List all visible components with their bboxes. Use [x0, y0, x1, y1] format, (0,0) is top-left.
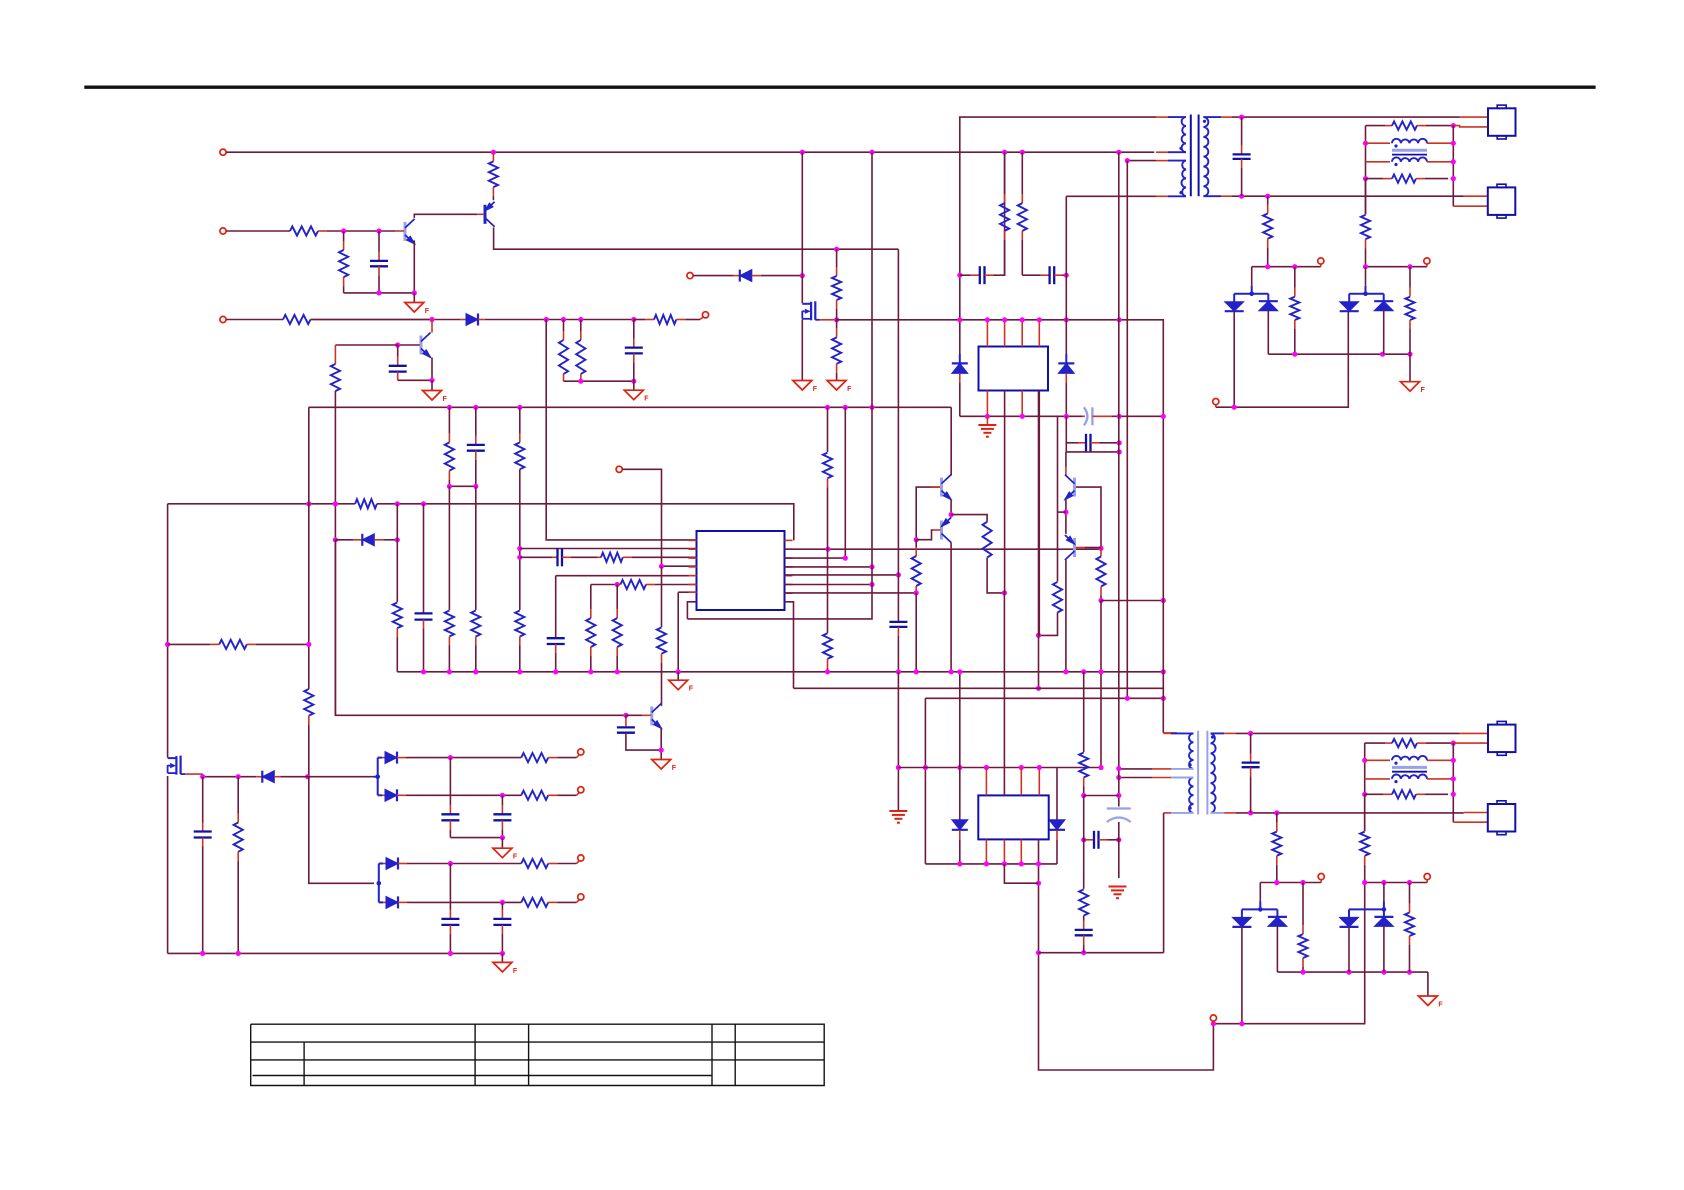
- wire cap join upper: [450, 837, 502, 839]
- wire R4 row: [785, 566, 873, 568]
- ic U1 right pin stub 7: [785, 592, 793, 594]
- junction dot M1 source: [834, 317, 839, 322]
- junction dot mosfet gate top: [834, 247, 839, 252]
- wire L3 right: [1448, 742, 1453, 744]
- junction dot D3b: [1063, 509, 1068, 514]
- junction dot upper top: [448, 755, 453, 760]
- mosfet M1: [802, 301, 820, 320]
- choke phase dot 1: [1394, 144, 1397, 147]
- wire scrD horizontal: [1365, 882, 1428, 884]
- wire scrA tee left down: [1233, 294, 1235, 302]
- u2 top stub 2: [1004, 320, 1006, 347]
- wire QB2 base stub: [1076, 547, 1085, 549]
- wire Z3 bottom: [959, 830, 961, 840]
- transformer T2 core line 2: [1206, 731, 1208, 815]
- wire R25 bottom: [987, 558, 1004, 593]
- resistor R15: [445, 611, 454, 672]
- capacitor C14: [1233, 117, 1251, 196]
- u2 bottom stub 2 long: [1004, 391, 1006, 593]
- diode D15: [383, 858, 409, 870]
- capacitor C5: [467, 407, 485, 486]
- choke2 phase dot 1: [1394, 762, 1397, 765]
- ic U2 optocoupler: [979, 347, 1049, 391]
- junction dot R4 row: [869, 564, 874, 569]
- u2 bottom stub 1: [986, 391, 988, 417]
- u3 top stub 1: [985, 768, 987, 796]
- wire scrB tee right down: [1383, 294, 1385, 302]
- resistor R22: [613, 585, 622, 672]
- wire x1004 mid: [1004, 245, 1006, 275]
- u3 top stub 2 long: [1003, 593, 1005, 796]
- capacitor C23: [493, 902, 511, 953]
- resistor R17: [515, 407, 524, 469]
- wire D8 down: [1241, 927, 1243, 1024]
- earth ground E3: [889, 811, 907, 823]
- wire upper pair hook top: [374, 776, 378, 778]
- junction dot R3 row: [843, 556, 848, 561]
- wire left rail top: [1365, 126, 1367, 215]
- terminal input 3: [220, 316, 226, 322]
- terminal RT: [702, 312, 708, 318]
- resistor R12: [331, 364, 340, 391]
- resistor R24: [823, 633, 832, 672]
- wire scrA tee: [1234, 293, 1268, 295]
- wire gnd bus Q1: [344, 292, 415, 294]
- resistor R27: [1096, 548, 1105, 600]
- resistor R8: [832, 249, 841, 320]
- resistor R37: [1079, 889, 1088, 915]
- junction dots row452: [1117, 449, 1122, 454]
- wire ic bottom left pin: [687, 602, 696, 619]
- wire x308 to lower pair: [309, 777, 374, 884]
- junction dots R2 row: [825, 547, 830, 552]
- capacitor C10: [960, 266, 1000, 284]
- wire x1004 to x1038: [1004, 864, 1038, 883]
- wire QC emitter: [660, 729, 662, 760]
- diode D14: [382, 789, 408, 801]
- wire lower pair top branch: [379, 863, 383, 865]
- wire scrB feed blue: [1365, 286, 1367, 294]
- capacitor C9: [617, 715, 635, 732]
- resistor R41: [1405, 883, 1414, 973]
- u2 top stub 1: [986, 320, 988, 347]
- wire col x519: [519, 469, 521, 610]
- wire t2 p bottom down: [1163, 813, 1165, 953]
- wire QC base stub a: [626, 714, 642, 716]
- zener Z1: [952, 363, 968, 373]
- wire QA2 base stub: [933, 529, 941, 531]
- junction dots rc bottom: [578, 379, 636, 384]
- wire col x1119 full: [1118, 152, 1120, 806]
- junction dot x1038 688: [1036, 686, 1041, 691]
- wire QA mid: [950, 500, 952, 518]
- wire QA2 base feed: [916, 530, 933, 540]
- wire row3 rc bottom: [564, 380, 634, 382]
- diode D7 (up): [1374, 301, 1393, 311]
- wire t1 sec top: [1232, 116, 1460, 118]
- ic U1 right pin stub 2: [785, 548, 793, 550]
- wire col x1163: [1162, 416, 1164, 733]
- wire R5 row: [785, 574, 899, 576]
- ground F11: [493, 962, 518, 975]
- junction dot L3 right: [1451, 741, 1456, 746]
- junction dots left rail2: [1362, 758, 1367, 797]
- wire QC base stub b: [642, 714, 651, 716]
- wire ic bottom right pin: [785, 602, 794, 689]
- ic U1 right pin stub 1: [785, 539, 793, 541]
- wire Q3 gnd stub: [431, 380, 433, 390]
- junction dots x1083: [1081, 793, 1086, 843]
- wire bottom rail left: [168, 952, 503, 954]
- ic U1 left pin stub 7: [689, 591, 697, 593]
- junction dots x1119 lower: [1116, 766, 1121, 843]
- transistor Q1: [405, 219, 416, 245]
- mosfet M2: [168, 756, 186, 775]
- ground F4: [793, 381, 818, 394]
- wire R3 row: [785, 407, 846, 558]
- wire T1 primary top wire: [959, 116, 1156, 118]
- svg-text:F: F: [425, 308, 430, 315]
- diode D13: [382, 752, 408, 764]
- wire right rail: [1452, 126, 1454, 207]
- transformer T1 core line 1: [1190, 115, 1192, 197]
- junction dots row3: [429, 317, 636, 322]
- t2 p bot lead: [1164, 812, 1171, 814]
- wire Q3 base row: [398, 344, 420, 346]
- wire L3 row a: [520, 556, 552, 558]
- wire N2 down: [915, 593, 917, 672]
- junction dots scrA horizontal: [1265, 264, 1297, 269]
- wire choke cm bot right lead: [1427, 161, 1453, 163]
- ground F2: [423, 391, 448, 404]
- svg-text:F: F: [513, 854, 518, 861]
- resistor R23: [823, 453, 832, 550]
- junction dots ground bus: [421, 669, 1166, 674]
- u3 bottom stub 3: [1020, 839, 1022, 864]
- wire m2 row b: [280, 776, 374, 778]
- diode D12: [256, 771, 280, 783]
- wire J4 upper pin: [1464, 812, 1488, 814]
- transistor QB1: [1063, 475, 1074, 501]
- wire t1 p2 top: [1127, 160, 1156, 162]
- earth ground E2: [1109, 887, 1127, 899]
- wire col x449 lower: [448, 486, 450, 610]
- blue node lower pair: [377, 881, 382, 886]
- resistor R4: [283, 315, 432, 324]
- resistor R34: [1290, 267, 1299, 355]
- junction dots scrB horizontal: [1363, 264, 1413, 269]
- wire row3b: [311, 319, 461, 321]
- wire x1083 lower: [1083, 840, 1085, 889]
- choke CM2 top coil: [1392, 756, 1427, 760]
- choke2 core line b: [1392, 771, 1427, 773]
- t1 p2 top lead: [1156, 160, 1168, 162]
- wire base Q2 to Q1: [414, 214, 477, 218]
- wire scrC bot term stub: [1212, 1021, 1214, 1024]
- resistor R44: [521, 753, 576, 762]
- wire mid distribution: [168, 503, 356, 505]
- diode D5 (up): [1259, 301, 1278, 311]
- transistor Q3: [421, 333, 432, 359]
- wire col x167: [167, 504, 169, 758]
- terminal scrB gate: [1424, 258, 1430, 264]
- junction dot N2: [914, 590, 919, 595]
- wire col x475 lower: [475, 486, 477, 610]
- wire H3 rail: [898, 767, 1101, 769]
- wire Z2 bottom: [1065, 373, 1067, 383]
- wire L2 row: [520, 548, 697, 550]
- wire lower bot branch: [409, 901, 521, 903]
- wire QA base column: [916, 487, 940, 540]
- resistor R31: [1018, 152, 1027, 245]
- ic U1 left pin stubs: [689, 539, 697, 541]
- wire t2 lead A: [1119, 768, 1152, 770]
- inductor L3: [1385, 739, 1448, 747]
- resistor R39: [1360, 832, 1369, 883]
- wire upper pair bot branch: [378, 794, 382, 796]
- svg-text:F: F: [443, 396, 448, 403]
- choke2 phase dot 2: [1394, 780, 1397, 783]
- junction dot t1 sec top: [1239, 115, 1244, 120]
- junction dot x925 H3: [923, 765, 928, 770]
- transformer T2 primary lower coil: [1171, 778, 1194, 813]
- inductor L4: [1365, 790, 1448, 798]
- wire scrC feed blue: [1259, 902, 1261, 910]
- terminal input 1: [220, 149, 226, 155]
- capacitor C15: [1242, 733, 1260, 813]
- resistor R25: [983, 522, 992, 558]
- t2 phase dot 2: [1189, 807, 1192, 810]
- ic U3 optocoupler: [978, 795, 1048, 839]
- wire scrA bottom: [1216, 311, 1349, 407]
- wire scrC tee: [1242, 908, 1278, 910]
- wire Z1 top: [959, 354, 961, 363]
- resistor R46: [521, 859, 576, 868]
- wire Z3 bottom b: [959, 840, 961, 864]
- capacitor C3: [625, 320, 643, 382]
- wire opto1 bottom rail: [960, 415, 1082, 417]
- junction dot D3a: [949, 512, 954, 517]
- junction dot x1038 635: [1036, 633, 1041, 638]
- wire D11 down: [1383, 926, 1385, 972]
- diode D2: [734, 270, 803, 282]
- resistor R33: [1361, 215, 1370, 267]
- wire choke2 cm top left lead: [1365, 759, 1390, 761]
- capacitor C18: [1075, 916, 1093, 953]
- wire C11 right: [1062, 274, 1066, 276]
- resistor R29: [657, 627, 666, 705]
- capacitor C4: [415, 613, 433, 671]
- junction dot x1127 698: [1125, 696, 1130, 701]
- junction dots right rail2: [1451, 758, 1456, 797]
- terminal scrD gate: [1424, 874, 1430, 880]
- ic U1 left pin stub 6: [689, 584, 697, 586]
- wire L1 right: [1448, 125, 1453, 127]
- wire col x423: [423, 504, 425, 613]
- wire lower top branch: [409, 863, 521, 865]
- wire col x555: [555, 576, 557, 638]
- wire H5 rail: [925, 863, 1057, 865]
- resistor R45: [521, 791, 576, 800]
- wire left rail2 lower: [1364, 794, 1366, 831]
- u3 top stub 4: [1038, 768, 1040, 796]
- junction dots scrA mid: [1292, 352, 1412, 357]
- wire scrA mid: [1268, 353, 1410, 355]
- wire row1: [226, 151, 1154, 153]
- transformer T1 primary lower coil: [1168, 161, 1186, 197]
- wire opto1 bottom rail b: [1119, 415, 1164, 417]
- junction dots row442: [1117, 440, 1122, 445]
- ic U1 right pin stub 4: [785, 566, 793, 568]
- diode D9 (up): [1268, 917, 1287, 927]
- wire scrD tee: [1349, 908, 1384, 910]
- wire scrB term stub: [1426, 264, 1428, 267]
- capacitor C12 polarized: [1082, 407, 1112, 425]
- junction dot N1b: [1098, 546, 1103, 551]
- wire H698: [925, 697, 1163, 699]
- wire Q3 emitter: [431, 358, 433, 381]
- u3 bottom stub 1: [985, 839, 987, 864]
- wire M2 drain down: [167, 776, 169, 953]
- wire choke cm top left lead: [1366, 142, 1391, 144]
- resistor R13: [393, 603, 402, 672]
- wire col x308: [308, 407, 310, 689]
- wire Q1 emitter: [413, 240, 415, 293]
- wire x1022 mid: [1021, 245, 1023, 275]
- t1 phase dot 3: [1203, 120, 1206, 123]
- wire upper pair vert: [377, 758, 379, 796]
- resistor R10: [355, 499, 377, 508]
- t1 phase dot 2: [1179, 191, 1182, 194]
- wire top distribution: [309, 406, 951, 408]
- wire gnd stub upper pair: [501, 838, 503, 848]
- wire C9 bottom: [626, 733, 661, 750]
- choke core line a: [1392, 149, 1427, 152]
- wire R28 bottom: [1039, 613, 1058, 636]
- wire scrB tee: [1349, 293, 1384, 295]
- wire term stub o3: [577, 861, 580, 864]
- junction dot t1 p2 top: [1125, 158, 1130, 163]
- resistor R30: [1000, 152, 1009, 245]
- wire col x1083 top: [1083, 672, 1085, 752]
- wire lower pair bot branch: [379, 901, 383, 903]
- wire opto1 bottom rail mid: [1112, 415, 1119, 417]
- ic U1 PWM controller: [697, 531, 785, 610]
- wire col x1066 mid: [1065, 416, 1067, 452]
- wire gnd stub Q1: [413, 293, 415, 303]
- wire scrC term stub: [1320, 880, 1322, 883]
- ic U1 right pin stub 5: [785, 575, 793, 577]
- transistor QA2: [940, 518, 951, 543]
- wire M2 source: [185, 773, 203, 775]
- wire M1 rail right: [837, 320, 1164, 417]
- capacitor C21: [493, 795, 511, 837]
- svg-text:F: F: [672, 765, 677, 772]
- wire J2 upper pin: [1464, 195, 1488, 197]
- u2 top stub 3: [1021, 320, 1023, 347]
- blue node upper pair: [375, 774, 380, 779]
- wire col x925: [924, 698, 926, 864]
- wire Q3 base left: [335, 344, 397, 346]
- junction dot QC base: [623, 713, 628, 718]
- junction dots t2 sec bottom: [1248, 810, 1279, 815]
- resistor R38: [1272, 813, 1281, 883]
- resistor R40: [1298, 883, 1307, 973]
- t2 p top lead: [1163, 732, 1171, 734]
- ground F7: [652, 760, 677, 773]
- ground F5: [827, 381, 852, 394]
- wire scrD term stub: [1426, 880, 1428, 883]
- wire scrC tee right down: [1276, 909, 1278, 917]
- wire col x335 lower: [334, 391, 336, 715]
- junction dots col x519: [517, 546, 522, 560]
- junction dots t1 sec bottom: [1239, 194, 1270, 199]
- resistor R7: [576, 320, 585, 382]
- t1 p2 bot lead red: [1156, 195, 1168, 197]
- diode D3: [336, 534, 398, 546]
- junction dots col x335: [333, 501, 338, 542]
- wire col x827 lower: [827, 549, 829, 633]
- wire scrB feed: [1365, 267, 1367, 286]
- wire M2 source row: [202, 774, 204, 777]
- wire scrD tee right down: [1383, 909, 1385, 917]
- wire choke2 cm bot right lead: [1427, 778, 1453, 780]
- terminal scrA gate: [1318, 258, 1324, 264]
- u2 top stub 4: [1038, 320, 1040, 347]
- transistor QA1: [942, 475, 953, 501]
- junction dots opto1 top rail: [985, 317, 1122, 322]
- junction dots row2: [341, 228, 382, 233]
- choke CM bottom coil: [1392, 157, 1427, 161]
- wire y793 row: [1084, 795, 1119, 797]
- u3 bottom stub 4 long: [1038, 839, 1040, 952]
- junction dots scrC mid: [1300, 970, 1412, 975]
- wire L7 row: [678, 591, 696, 593]
- junction dot x1038 952: [1036, 950, 1041, 955]
- connector J1: [1488, 105, 1516, 139]
- junction dots rc mid join: [447, 484, 479, 489]
- choke CM2 bottom coil: [1392, 775, 1427, 779]
- ic U1 left pin stub 5: [689, 575, 697, 577]
- resistor R20: [617, 580, 696, 589]
- transistor QC: [652, 703, 663, 729]
- choke phase dot 2: [1394, 163, 1397, 166]
- wire QB2 base stub b: [1085, 547, 1092, 549]
- junction dot L1 right: [1451, 123, 1456, 128]
- junction dots scrD horizontal: [1362, 880, 1412, 885]
- resistor R1: [489, 152, 498, 200]
- wire Q3 cap bottom: [398, 379, 432, 381]
- wire scrB horizontal: [1366, 266, 1427, 268]
- svg-text:F: F: [813, 386, 818, 393]
- ground F8: [1401, 382, 1426, 395]
- junction dots scrC horizontal: [1274, 880, 1305, 885]
- title rule: [84, 85, 1595, 88]
- resistor R26: [912, 540, 921, 593]
- wire L5 row: [556, 575, 697, 577]
- u2 bottom stub 3: [1021, 391, 1023, 417]
- wire choke top ind left: [1366, 125, 1386, 127]
- wire gndE stub: [986, 416, 988, 424]
- wire Z4 bottom: [1056, 830, 1058, 840]
- wire mid distribution b: [377, 504, 794, 541]
- wire scrA feed: [1251, 267, 1253, 286]
- resistor R35: [1405, 267, 1414, 355]
- u2 bottom stub 4 long: [1038, 391, 1040, 636]
- wire R2 row: [785, 548, 1102, 550]
- wire QA1 base stub: [931, 486, 940, 488]
- resistor R14: [445, 407, 454, 486]
